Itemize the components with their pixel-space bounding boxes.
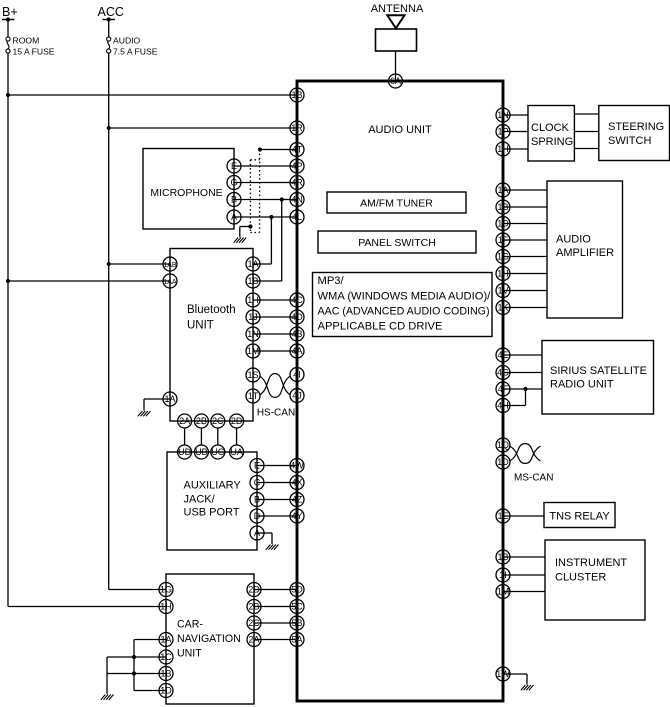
wire audio 4F to sirius bbox=[503, 388, 542, 390]
pin 4L (audio left) bbox=[290, 210, 304, 224]
svg-text:USB PORT: USB PORT bbox=[184, 507, 240, 519]
svg-text:1A: 1A bbox=[497, 185, 508, 195]
svg-text:4G: 4G bbox=[497, 368, 509, 378]
svg-text:1P: 1P bbox=[497, 127, 508, 137]
pin 1B (audio left) bbox=[290, 88, 304, 102]
wire ACC rail to nav 1G bbox=[109, 589, 166, 591]
pin 2B (nav right) bbox=[247, 600, 261, 614]
pin 4R (audio left) bbox=[290, 176, 304, 190]
svg-text:1H: 1H bbox=[247, 295, 259, 305]
svg-text:1H: 1H bbox=[497, 144, 509, 154]
wire antenna to audio 6A bbox=[395, 51, 397, 81]
pin 2B (bluetooth bottom) bbox=[194, 414, 208, 428]
pin C (aux right) bbox=[250, 476, 264, 490]
pin 1H (bluetooth right) bbox=[246, 293, 260, 307]
junction nav ground bus / 1C bbox=[132, 655, 136, 659]
wire audio to amplifier y=240 bbox=[503, 239, 547, 241]
pin 4Y (audio left) bbox=[290, 509, 304, 523]
wire nav 1C ground horizontal bbox=[107, 656, 166, 658]
pin 1E (audio right) bbox=[496, 509, 510, 523]
svg-text:1T: 1T bbox=[248, 391, 259, 401]
wire audio 1M to cluster bbox=[503, 591, 545, 593]
pin UD (aux top) bbox=[178, 445, 192, 459]
svg-text:5D: 5D bbox=[291, 585, 303, 595]
svg-text:4F: 4F bbox=[498, 384, 509, 394]
svg-text:CAR-: CAR- bbox=[177, 619, 203, 631]
junction shield / 4T wire bbox=[258, 147, 262, 151]
wire nav 2D to audio 5D bbox=[254, 589, 297, 591]
wire audio 1H to clock spring bbox=[503, 148, 528, 150]
pin 4A (audio left) bbox=[290, 344, 304, 358]
pin 1M (bluetooth right) bbox=[246, 344, 260, 358]
svg-text:1K: 1K bbox=[497, 303, 508, 313]
shield dashed right side bbox=[259, 150, 261, 233]
pin 1A (bluetooth right) bbox=[246, 257, 260, 271]
pin 1AA (bluetooth left) bbox=[163, 274, 177, 288]
svg-text:1AA: 1AA bbox=[163, 279, 177, 286]
ground (aux jack) bbox=[266, 545, 279, 550]
wire B+ down to fuse bbox=[7, 20, 9, 37]
svg-text:MP3/: MP3/ bbox=[318, 275, 345, 287]
twisted pair HS-CAN bbox=[260, 374, 291, 398]
svg-text:AUDIO: AUDIO bbox=[556, 234, 591, 246]
wire nav 2B to audio 5C bbox=[254, 606, 297, 608]
wire audio 1W to ground bbox=[526, 674, 528, 685]
wire 4H up to 4F net bbox=[525, 389, 527, 406]
shield dashed top bbox=[250, 159, 259, 161]
svg-text:WMA (WINDOWS MEDIA AUDIO)/: WMA (WINDOWS MEDIA AUDIO)/ bbox=[318, 290, 492, 302]
svg-text:4Z: 4Z bbox=[292, 495, 303, 505]
svg-text:1N: 1N bbox=[497, 110, 509, 120]
box clock spring bbox=[528, 106, 574, 162]
pin 5A (audio left) bbox=[290, 633, 304, 647]
box CD drive note bbox=[313, 273, 493, 337]
wire audio 1I to cluster bbox=[503, 574, 545, 576]
svg-text:1B: 1B bbox=[291, 90, 302, 100]
box audio amplifier bbox=[547, 181, 623, 318]
wire audio to amplifier y=307.5 bbox=[503, 307, 547, 309]
svg-text:CLUSTER: CLUSTER bbox=[555, 572, 606, 584]
wire bluetooth 1B horizontal bbox=[253, 280, 282, 282]
svg-text:ACC: ACC bbox=[98, 5, 124, 19]
svg-text:15 A FUSE: 15 A FUSE bbox=[13, 47, 55, 57]
ground (bluetooth) bbox=[138, 411, 151, 416]
wire bluetooth 1N to audio 4B bbox=[253, 333, 297, 335]
svg-text:2B: 2B bbox=[248, 602, 259, 612]
wire bluetooth 2x to aux Ux at x=201.4 bbox=[200, 428, 202, 445]
pin 1W (audio right) bbox=[496, 667, 510, 681]
pin 1A (nav left) bbox=[159, 633, 173, 647]
svg-text:AMPLIFIER: AMPLIFIER bbox=[556, 247, 614, 259]
pin 1R (audio left) bbox=[290, 121, 304, 135]
svg-text:TNS RELAY: TNS RELAY bbox=[549, 511, 610, 523]
svg-text:MICROPHONE: MICROPHONE bbox=[150, 187, 222, 199]
svg-text:1D: 1D bbox=[160, 686, 172, 696]
svg-text:4E: 4E bbox=[497, 350, 508, 360]
pin UB (aux top) bbox=[194, 445, 208, 459]
pin 2A (nav right) bbox=[247, 633, 261, 647]
wire aux B to audio 4Z bbox=[257, 499, 297, 501]
pin 2A (bluetooth bottom) bbox=[178, 414, 192, 428]
twisted pair MS-CAN bbox=[510, 444, 541, 464]
svg-text:4L: 4L bbox=[292, 212, 302, 222]
svg-text:1G: 1G bbox=[497, 252, 509, 262]
B+ terminal dot bbox=[6, 17, 10, 21]
pin G (microphone) bbox=[227, 176, 241, 190]
wire bluetooth 1M to audio 4A bbox=[253, 350, 297, 352]
wire shield to ground vertical bbox=[239, 227, 241, 238]
svg-text:1A: 1A bbox=[247, 259, 258, 269]
pin 1K (audio right) bbox=[496, 301, 510, 315]
svg-text:UNIT: UNIT bbox=[187, 320, 214, 332]
ACC terminal dot bbox=[107, 17, 111, 21]
pin 1G (nav left) bbox=[159, 583, 173, 597]
wire mic A to audio 4L bbox=[234, 216, 297, 218]
wire audio 1E to TNS relay bbox=[503, 515, 544, 517]
svg-text:4N: 4N bbox=[291, 195, 303, 205]
svg-text:SPRING: SPRING bbox=[531, 136, 573, 148]
shield dashed left side bbox=[249, 160, 251, 233]
svg-text:D: D bbox=[254, 511, 261, 521]
pin 1I (audio right) bbox=[496, 568, 510, 582]
pin 4C (audio left) bbox=[290, 293, 304, 307]
svg-text:1M: 1M bbox=[247, 346, 260, 356]
fuse AUDIO 7.5A bbox=[107, 37, 111, 53]
svg-text:1H: 1H bbox=[497, 269, 509, 279]
box car-navigation unit bbox=[166, 574, 254, 704]
wire nav 1B ground horizontal bbox=[107, 673, 166, 675]
pin 4D (audio left) bbox=[290, 310, 304, 324]
wire ACC down to fuse bbox=[108, 20, 110, 37]
svg-text:5A: 5A bbox=[291, 635, 302, 645]
pin 1F (audio right) bbox=[496, 233, 510, 247]
wire B+ rail to nav 1H bbox=[8, 606, 166, 608]
pin 4N (audio left) bbox=[290, 193, 304, 207]
pin 1T (bluetooth right) bbox=[246, 389, 260, 403]
pin 2D (bluetooth bottom) bbox=[230, 414, 244, 428]
fuse ROOM 15A bbox=[6, 37, 10, 53]
pin UA (aux top) bbox=[230, 445, 244, 459]
wire clock spring to steering switch 1 bbox=[574, 113, 598, 115]
pin 4E (audio right) bbox=[496, 348, 510, 362]
wire aux A to ground bbox=[271, 533, 273, 544]
wire nav ground bus vertical bbox=[133, 640, 135, 691]
svg-text:B: B bbox=[231, 195, 237, 205]
pin 1D (audio right) bbox=[496, 455, 510, 469]
pin 1A (audio right) bbox=[496, 183, 510, 197]
wire audio 1B to cluster bbox=[503, 556, 545, 558]
svg-text:HS-CAN: HS-CAN bbox=[257, 408, 295, 419]
pin 1H (audio right) bbox=[496, 142, 510, 156]
svg-text:JACK/: JACK/ bbox=[184, 494, 216, 506]
pin E (microphone) bbox=[227, 159, 241, 173]
junction shield to ground bbox=[248, 224, 252, 228]
svg-text:1M: 1M bbox=[497, 587, 510, 597]
wire bluetooth 1J to audio 4D bbox=[253, 316, 297, 318]
svg-text:E: E bbox=[231, 161, 237, 171]
box AUDIO UNIT bbox=[297, 81, 503, 701]
box panel switch bbox=[318, 231, 476, 253]
antenna symbol triangle bbox=[387, 15, 404, 28]
box TNS relay bbox=[544, 503, 615, 528]
wire audio to amplifier y=256.5 bbox=[503, 256, 547, 258]
pin 1S (bluetooth right) bbox=[246, 368, 260, 382]
svg-text:2A: 2A bbox=[248, 635, 259, 645]
antenna base box bbox=[376, 29, 417, 51]
pin 1H (audio right) bbox=[496, 267, 510, 281]
svg-text:G: G bbox=[230, 178, 237, 188]
wire bluetooth 2x to aux Ux at x=184.6 bbox=[184, 428, 186, 445]
svg-text:ANTENNA: ANTENNA bbox=[371, 3, 424, 15]
wire bluetooth 1A(gnd) horizontal bbox=[144, 398, 170, 400]
svg-text:E: E bbox=[254, 461, 260, 471]
box steering switch bbox=[599, 106, 670, 161]
svg-text:C: C bbox=[254, 478, 261, 488]
junction mic B wire / bluetooth 1B bbox=[280, 197, 284, 201]
wire aux A horizontal bbox=[257, 532, 272, 534]
svg-text:4Y: 4Y bbox=[291, 511, 302, 521]
svg-text:1D: 1D bbox=[497, 219, 509, 229]
wire shield drain to audio 4T bbox=[260, 149, 297, 151]
svg-text:CLOCK: CLOCK bbox=[531, 122, 570, 134]
svg-text:A: A bbox=[231, 212, 237, 222]
svg-text:5B: 5B bbox=[291, 618, 302, 628]
svg-text:1I: 1I bbox=[499, 570, 507, 580]
svg-text:B: B bbox=[254, 495, 260, 505]
pin 1B (audio right) bbox=[496, 550, 510, 564]
svg-text:4W: 4W bbox=[290, 461, 304, 471]
wire bluetooth 2x to aux Ux at x=236.6 bbox=[236, 428, 238, 445]
svg-text:1C: 1C bbox=[160, 652, 172, 662]
svg-text:2A: 2A bbox=[179, 416, 190, 426]
wire bluetooth 1A horizontal bbox=[253, 263, 271, 265]
svg-text:2C: 2C bbox=[248, 618, 260, 628]
wire nav 2A to audio 5A bbox=[254, 639, 297, 641]
svg-text:UC: UC bbox=[211, 447, 224, 457]
svg-text:1A: 1A bbox=[164, 394, 175, 404]
wire B+ rail vertical bbox=[7, 53, 9, 606]
wire B+ to audio 1B bbox=[8, 94, 297, 96]
svg-text:1R: 1R bbox=[291, 123, 303, 133]
svg-text:1J: 1J bbox=[248, 312, 258, 322]
wire nav 1D ground horizontal bbox=[134, 690, 166, 692]
pin 5B (audio left) bbox=[290, 616, 304, 630]
wire ACC to audio 1R bbox=[109, 127, 297, 129]
svg-text:1S: 1S bbox=[247, 370, 258, 380]
svg-text:4I: 4I bbox=[293, 370, 301, 380]
svg-text:AUDIO: AUDIO bbox=[113, 36, 141, 46]
pin 1D (audio right) bbox=[496, 217, 510, 231]
svg-text:MS-CAN: MS-CAN bbox=[514, 473, 553, 484]
wire audio 1N to clock spring bbox=[503, 114, 528, 116]
svg-text:APPLICABLE CD DRIVE: APPLICABLE CD DRIVE bbox=[318, 321, 443, 333]
box AM/FM tuner bbox=[327, 192, 466, 213]
ACC terminal tick bbox=[103, 19, 116, 21]
pin 1P (audio right) bbox=[496, 125, 510, 139]
pin 5D (audio left) bbox=[290, 583, 304, 597]
svg-text:4C: 4C bbox=[291, 295, 303, 305]
wire audio to amplifier y=223.5 bbox=[503, 223, 547, 225]
svg-text:1F: 1F bbox=[498, 235, 509, 245]
svg-text:1Q: 1Q bbox=[497, 440, 509, 450]
svg-text:SWITCH: SWITCH bbox=[608, 135, 651, 147]
junction B+ / 1B wire bbox=[6, 93, 10, 97]
svg-text:4H: 4H bbox=[497, 401, 509, 411]
svg-text:4D: 4D bbox=[291, 312, 303, 322]
svg-text:1B: 1B bbox=[247, 276, 258, 286]
svg-text:UB: UB bbox=[195, 447, 208, 457]
pin 1C (nav left) bbox=[159, 650, 173, 664]
svg-text:1B: 1B bbox=[497, 552, 508, 562]
svg-text:1V: 1V bbox=[497, 286, 508, 296]
junction nav ground bus / 1B bbox=[132, 671, 136, 675]
svg-text:1N: 1N bbox=[247, 329, 259, 339]
svg-text:4A: 4A bbox=[291, 346, 302, 356]
pin 1B (bluetooth right) bbox=[246, 274, 260, 288]
wire aux D to audio 4Y bbox=[257, 515, 297, 517]
pin 1AB (bluetooth left) bbox=[163, 257, 177, 271]
junction mic A wire / bluetooth 1A bbox=[269, 215, 273, 219]
svg-text:4B: 4B bbox=[291, 329, 302, 339]
box Bluetooth unit bbox=[170, 249, 253, 422]
svg-text:1E: 1E bbox=[497, 511, 508, 521]
wire B+ to bluetooth 1AA bbox=[8, 280, 170, 282]
pin 4Z (audio left) bbox=[290, 493, 304, 507]
svg-text:4R: 4R bbox=[291, 178, 303, 188]
svg-text:UD: UD bbox=[178, 447, 191, 457]
wire bluetooth 1H to audio 4C bbox=[253, 299, 297, 301]
svg-text:ROOM: ROOM bbox=[13, 36, 40, 46]
svg-text:1B: 1B bbox=[497, 202, 508, 212]
box sirius satellite radio unit bbox=[542, 341, 654, 415]
junction B+ / 1AA wire bbox=[6, 279, 10, 283]
svg-text:1W: 1W bbox=[496, 669, 510, 679]
pin 4W (audio left) bbox=[290, 459, 304, 473]
pin B (microphone) bbox=[227, 193, 241, 207]
svg-text:STEERING: STEERING bbox=[608, 121, 664, 133]
svg-text:1B: 1B bbox=[160, 669, 171, 679]
wire nav 1A ground horizontal bbox=[134, 639, 166, 641]
pin 1H (nav left) bbox=[159, 600, 173, 614]
ground (car-nav) bbox=[101, 695, 114, 700]
wire audio to amplifier y=290.5 bbox=[503, 290, 547, 292]
pin D (aux right) bbox=[250, 509, 264, 523]
wire bluetooth 1B up to mic B net bbox=[281, 200, 283, 282]
wire nav ground vertical bbox=[106, 657, 108, 694]
svg-text:AUXILIARY: AUXILIARY bbox=[184, 480, 242, 492]
wire shield to ground horizontal bbox=[240, 226, 251, 228]
svg-text:2B: 2B bbox=[196, 416, 207, 426]
pin 4T (audio left) bbox=[290, 143, 304, 157]
junction ACC / 1AB wire bbox=[107, 262, 111, 266]
pin 1V (audio right) bbox=[496, 284, 510, 298]
wire bluetooth 2x to aux Ux at x=217.8 bbox=[217, 428, 219, 445]
shield dashed bottom bbox=[250, 232, 259, 234]
svg-text:1G: 1G bbox=[160, 585, 172, 595]
pin 4G (audio right) bbox=[496, 366, 510, 380]
svg-text:PANEL SWITCH: PANEL SWITCH bbox=[358, 237, 436, 249]
pin 1A (bluetooth left) bbox=[163, 392, 177, 406]
pin 1M (audio right) bbox=[496, 585, 510, 599]
wire mic B to audio 4N bbox=[234, 199, 297, 201]
pin 4I (audio left) bbox=[290, 368, 304, 382]
wire audio 1W horizontal bbox=[503, 673, 527, 675]
pin 4F (audio right) bbox=[496, 382, 510, 396]
svg-text:4T: 4T bbox=[292, 145, 303, 155]
junction ACC / 1R wire bbox=[107, 126, 111, 130]
wire audio to amplifier y=273.5 bbox=[503, 273, 547, 275]
pin 4B (audio left) bbox=[290, 327, 304, 341]
pin 6A (antenna) bbox=[389, 74, 403, 88]
svg-text:UA: UA bbox=[230, 447, 243, 457]
svg-text:4P: 4P bbox=[291, 161, 302, 171]
pin 2C (bluetooth bottom) bbox=[211, 414, 225, 428]
pin 1N (bluetooth right) bbox=[246, 327, 260, 341]
svg-text:AM/FM TUNER: AM/FM TUNER bbox=[360, 198, 433, 210]
wire bluetooth 1A up to mic A net bbox=[270, 217, 272, 264]
pin 1J (bluetooth right) bbox=[246, 310, 260, 324]
wire bluetooth ground vertical bbox=[143, 399, 145, 411]
pin 1G (audio right) bbox=[496, 250, 510, 264]
svg-text:6A: 6A bbox=[390, 76, 401, 86]
svg-text:1H: 1H bbox=[160, 602, 172, 612]
svg-text:2C: 2C bbox=[212, 416, 224, 426]
ground (microphone shield) bbox=[234, 238, 247, 243]
pin 1Q (audio right) bbox=[496, 438, 510, 452]
wire audio to amplifier y=207 bbox=[503, 206, 547, 208]
pin A (aux right) bbox=[250, 526, 264, 540]
pin B (aux right) bbox=[250, 493, 264, 507]
wire audio 4G to sirius bbox=[503, 372, 542, 374]
svg-text:4J: 4J bbox=[292, 391, 302, 401]
pin 5C (audio left) bbox=[290, 600, 304, 614]
svg-text:Bluetooth: Bluetooth bbox=[187, 304, 236, 316]
junction 4F/4H bbox=[523, 387, 527, 391]
pin 2D (nav right) bbox=[247, 583, 261, 597]
pin 4P (audio left) bbox=[290, 159, 304, 173]
pin UC (aux top) bbox=[211, 445, 225, 459]
wire audio 1P to clock spring bbox=[503, 131, 528, 133]
wire audio to amplifier y=190 bbox=[503, 189, 547, 191]
pin 4J (audio left) bbox=[290, 389, 304, 403]
svg-text:AUDIO UNIT: AUDIO UNIT bbox=[368, 124, 432, 136]
wire ACC rail vertical bbox=[108, 53, 110, 589]
svg-text:SIRIUS SATELLITE: SIRIUS SATELLITE bbox=[550, 365, 647, 377]
svg-text:UNIT: UNIT bbox=[177, 648, 202, 660]
wire clock spring to steering switch 3 bbox=[574, 148, 598, 150]
pin 1B (audio right) bbox=[496, 200, 510, 214]
svg-text:7.5 A FUSE: 7.5 A FUSE bbox=[113, 47, 158, 57]
pin 4X (audio left) bbox=[290, 476, 304, 490]
pin E (aux right) bbox=[250, 459, 264, 473]
wire mic E to audio 4P bbox=[234, 165, 297, 167]
svg-text:2D: 2D bbox=[231, 416, 243, 426]
svg-text:4X: 4X bbox=[291, 478, 302, 488]
wire aux C to audio 4X bbox=[257, 482, 297, 484]
ground (1W) bbox=[521, 685, 534, 690]
svg-text:NAVIGATION: NAVIGATION bbox=[177, 633, 241, 645]
pin 2C (nav right) bbox=[247, 616, 261, 630]
pin 4H (audio right) bbox=[496, 399, 510, 413]
svg-text:1A: 1A bbox=[160, 635, 171, 645]
svg-text:AAC (ADVANCED AUDIO CODING): AAC (ADVANCED AUDIO CODING) bbox=[318, 306, 490, 318]
wire clock spring to steering switch 2 bbox=[574, 131, 598, 133]
wire audio 4H horizontal bbox=[503, 405, 526, 407]
box auxiliary jack / USB port bbox=[167, 452, 257, 550]
svg-text:A: A bbox=[254, 528, 260, 538]
wire mic G to audio 4R bbox=[234, 182, 297, 184]
svg-text:B+: B+ bbox=[2, 5, 18, 19]
